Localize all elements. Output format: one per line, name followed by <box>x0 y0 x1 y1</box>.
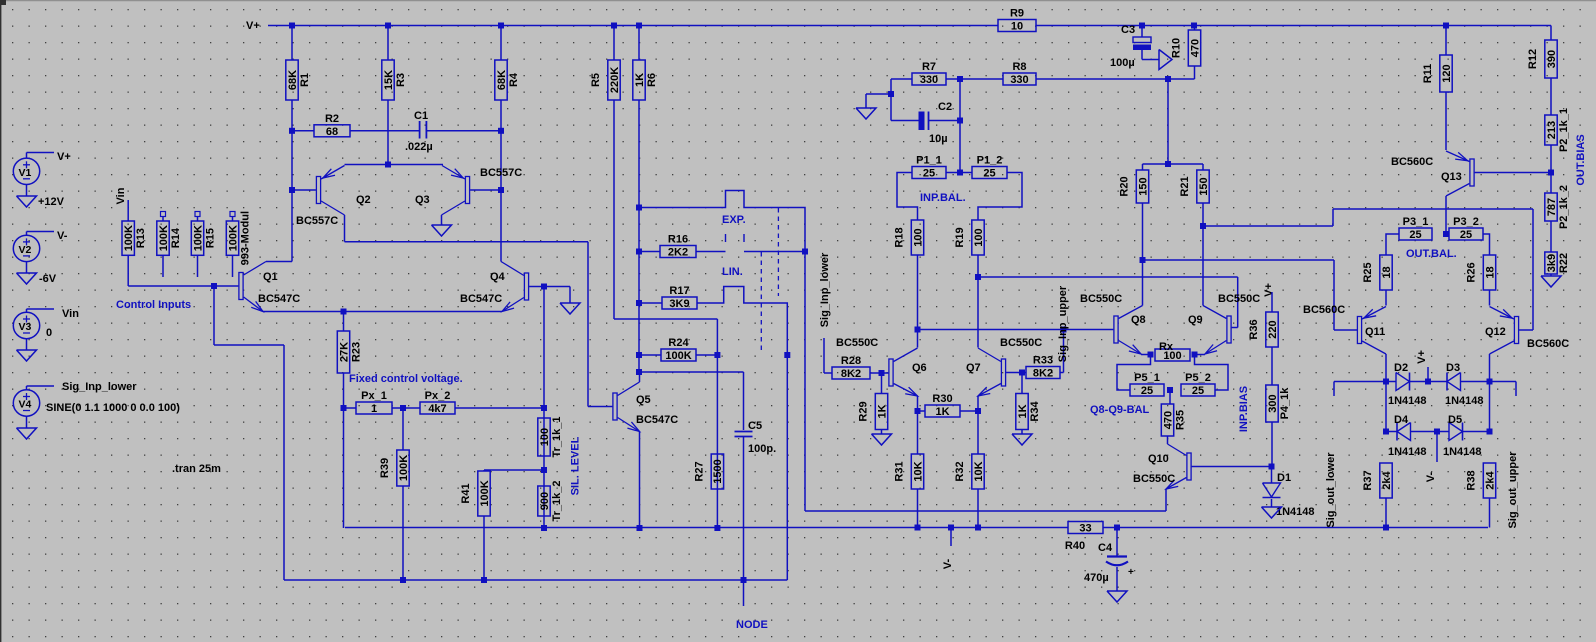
svg-text:P1_1: P1_1 <box>916 155 942 167</box>
svg-text:V-: V- <box>1425 471 1437 482</box>
svg-text:2K2: 2K2 <box>668 247 688 259</box>
svg-text:.022µ: .022µ <box>405 141 433 153</box>
svg-text:10: 10 <box>1011 21 1023 33</box>
svg-text:C5: C5 <box>748 420 762 432</box>
svg-text:1K: 1K <box>634 73 646 87</box>
svg-text:Sig_Inp_lower: Sig_Inp_lower <box>62 381 137 393</box>
svg-text:25: 25 <box>983 168 995 180</box>
svg-text:100K: 100K <box>479 480 491 506</box>
svg-text:Px_2: Px_2 <box>425 390 451 402</box>
svg-text:25: 25 <box>1409 229 1421 241</box>
svg-text:Q8-Q9-BAL: Q8-Q9-BAL <box>1090 404 1150 416</box>
svg-text:100K: 100K <box>227 225 239 251</box>
svg-text:993-Modul: 993-Modul <box>240 211 252 265</box>
svg-text:Q2: Q2 <box>356 194 371 206</box>
svg-text:25: 25 <box>1460 229 1472 241</box>
svg-text:BC560C: BC560C <box>1303 304 1345 316</box>
svg-text:100K: 100K <box>158 225 170 251</box>
svg-text:25: 25 <box>1141 385 1153 397</box>
svg-text:Vin: Vin <box>115 187 127 204</box>
svg-text:100: 100 <box>912 228 924 246</box>
svg-text:-6V: -6V <box>39 273 57 285</box>
svg-text:P5_1: P5_1 <box>1134 372 1160 384</box>
svg-text:R11: R11 <box>1422 64 1434 84</box>
svg-text:Sig_out_upper: Sig_out_upper <box>1507 451 1519 529</box>
svg-text:P4_1k: P4_1k <box>1279 387 1291 420</box>
svg-text:P1_2: P1_2 <box>977 155 1003 167</box>
svg-text:BC557C: BC557C <box>480 167 522 179</box>
svg-text:V-: V- <box>942 558 954 569</box>
svg-text:R24: R24 <box>668 337 689 349</box>
svg-text:OUT.BAL.: OUT.BAL. <box>1406 248 1457 260</box>
svg-text:P5_2: P5_2 <box>1185 372 1211 384</box>
svg-text:BC550C: BC550C <box>1000 337 1042 349</box>
svg-text:R36: R36 <box>1248 319 1260 339</box>
svg-text:V+: V+ <box>57 151 71 163</box>
svg-text:BC550C: BC550C <box>1080 293 1122 305</box>
svg-text:INP.BIAS: INP.BIAS <box>1238 386 1250 432</box>
svg-text:18: 18 <box>1484 266 1496 278</box>
svg-text:1500: 1500 <box>712 459 724 483</box>
svg-text:1K: 1K <box>935 406 949 418</box>
svg-text:100K: 100K <box>398 455 410 481</box>
svg-text:+12V: +12V <box>38 196 65 208</box>
svg-text:18: 18 <box>1381 266 1393 278</box>
svg-text:+: + <box>1128 567 1134 578</box>
svg-text:3K9: 3K9 <box>669 298 689 310</box>
svg-text:R33: R33 <box>1033 355 1053 367</box>
svg-text:Px_1: Px_1 <box>361 390 387 402</box>
svg-text:C3: C3 <box>1121 24 1135 36</box>
svg-text:100: 100 <box>539 428 551 446</box>
svg-text:150: 150 <box>1198 177 1210 195</box>
svg-text:330: 330 <box>920 74 938 86</box>
svg-text:0: 0 <box>46 327 52 339</box>
svg-text:R27: R27 <box>693 461 705 481</box>
svg-text:2k4: 2k4 <box>1484 470 1496 489</box>
svg-text:Q8: Q8 <box>1131 314 1146 326</box>
svg-text:100K: 100K <box>665 350 691 362</box>
svg-text:V4: V4 <box>19 399 32 411</box>
svg-text:100µ: 100µ <box>1110 57 1135 69</box>
svg-text:D4: D4 <box>1394 414 1409 426</box>
svg-text:470µ: 470µ <box>1084 572 1109 584</box>
svg-text:25: 25 <box>1192 385 1204 397</box>
svg-text:R28: R28 <box>841 355 861 367</box>
svg-text:3k9: 3k9 <box>1546 254 1558 272</box>
svg-text:R1: R1 <box>299 73 311 87</box>
svg-text:Sig_Inp_upper: Sig_Inp_upper <box>1057 285 1069 362</box>
svg-text:R22: R22 <box>1558 253 1570 273</box>
svg-text:68K: 68K <box>287 70 299 90</box>
svg-text:150: 150 <box>1137 177 1149 195</box>
svg-text:4k7: 4k7 <box>428 403 446 415</box>
svg-text:Q9: Q9 <box>1188 314 1203 326</box>
svg-text:R8: R8 <box>1012 61 1026 73</box>
svg-text:R17: R17 <box>669 285 689 297</box>
svg-text:P3_1: P3_1 <box>1403 216 1429 228</box>
svg-text:BC547C: BC547C <box>460 293 502 305</box>
svg-text:Control Inputs: Control Inputs <box>116 299 191 311</box>
svg-text:1N4148: 1N4148 <box>1388 446 1427 458</box>
svg-text:EXP.: EXP. <box>722 214 746 226</box>
svg-text:BC547C: BC547C <box>636 414 678 426</box>
svg-text:R25: R25 <box>1362 262 1374 282</box>
svg-text:Q4: Q4 <box>490 271 506 283</box>
svg-text:Q13: Q13 <box>1441 171 1462 183</box>
svg-text:300: 300 <box>1267 394 1279 412</box>
svg-text:8K2: 8K2 <box>1033 368 1053 380</box>
svg-text:V3: V3 <box>19 321 32 333</box>
svg-text:R12: R12 <box>1527 49 1539 69</box>
svg-text:R35: R35 <box>1175 410 1187 430</box>
svg-text:BC550C: BC550C <box>1218 293 1260 305</box>
svg-text:INP.BAL.: INP.BAL. <box>920 192 966 204</box>
svg-text:V2: V2 <box>19 244 32 256</box>
svg-text:R31: R31 <box>894 461 906 481</box>
svg-text:R14: R14 <box>170 227 182 248</box>
svg-text:P3_2: P3_2 <box>1453 216 1479 228</box>
svg-text:Q6: Q6 <box>912 362 927 374</box>
svg-text:V-: V- <box>57 230 68 242</box>
svg-text:Q3: Q3 <box>415 194 430 206</box>
svg-text:.tran 25m: .tran 25m <box>172 463 221 475</box>
svg-text:NODE: NODE <box>736 619 768 631</box>
svg-text:R23: R23 <box>351 342 363 362</box>
svg-text:R37: R37 <box>1362 470 1374 490</box>
svg-text:V+: V+ <box>1416 350 1428 364</box>
svg-text:V+: V+ <box>246 20 260 32</box>
svg-text:R18: R18 <box>894 227 906 247</box>
svg-text:2k4: 2k4 <box>1381 470 1393 489</box>
svg-text:R30: R30 <box>932 393 952 405</box>
svg-text:D3: D3 <box>1446 362 1460 374</box>
svg-text:R16: R16 <box>668 234 688 246</box>
svg-text:SINE(0 1.1 1000 0 0.0 100): SINE(0 1.1 1000 0 0.0 100) <box>46 402 180 414</box>
svg-text:213: 213 <box>1546 121 1558 139</box>
svg-text:R13: R13 <box>135 228 147 248</box>
svg-text:330: 330 <box>1010 74 1028 86</box>
svg-text:Tr_1k_1: Tr_1k_1 <box>551 417 563 458</box>
svg-text:Q5: Q5 <box>636 394 651 406</box>
svg-text:R15: R15 <box>205 228 217 248</box>
svg-text:Vin: Vin <box>62 308 79 320</box>
svg-text:390: 390 <box>1546 50 1558 68</box>
svg-text:1N4148: 1N4148 <box>1443 446 1482 458</box>
svg-text:R3: R3 <box>395 73 407 87</box>
svg-text:Q11: Q11 <box>1365 326 1385 338</box>
svg-text:33: 33 <box>1079 523 1091 535</box>
svg-text:R5: R5 <box>590 73 602 87</box>
svg-text:100: 100 <box>973 228 985 246</box>
svg-text:100K: 100K <box>192 225 204 251</box>
svg-text:C2: C2 <box>938 101 952 113</box>
svg-text:R19: R19 <box>954 227 966 247</box>
svg-text:R34: R34 <box>1029 401 1041 422</box>
svg-text:R20: R20 <box>1119 176 1131 196</box>
svg-text:Q1: Q1 <box>263 271 278 283</box>
svg-text:Q7: Q7 <box>966 362 981 374</box>
svg-text:68: 68 <box>326 126 338 138</box>
svg-text:C1: C1 <box>414 110 428 122</box>
svg-text:Fixed control voltage.: Fixed control voltage. <box>349 373 463 385</box>
svg-text:220K: 220K <box>609 67 621 93</box>
svg-text:P2_1k_1: P2_1k_1 <box>1558 108 1570 152</box>
svg-text:R41: R41 <box>460 483 472 503</box>
svg-text:Tr_1k_2: Tr_1k_2 <box>551 481 563 522</box>
svg-text:Q10: Q10 <box>1148 453 1169 465</box>
svg-text:P2_1k_2: P2_1k_2 <box>1558 185 1570 229</box>
svg-text:68K: 68K <box>496 70 508 90</box>
svg-text:15K: 15K <box>383 70 395 90</box>
svg-text:470: 470 <box>1162 411 1174 429</box>
svg-text:D1: D1 <box>1277 472 1291 484</box>
svg-text:10K: 10K <box>912 461 924 481</box>
svg-text:R40: R40 <box>1065 540 1085 552</box>
svg-text:R2: R2 <box>325 113 339 125</box>
svg-text:BC550C: BC550C <box>836 337 878 349</box>
svg-text:V+: V+ <box>1263 283 1275 297</box>
svg-text:900: 900 <box>539 492 551 510</box>
svg-text:1K: 1K <box>1017 404 1029 418</box>
svg-text:Sig_out_lower: Sig_out_lower <box>1325 452 1337 528</box>
svg-text:R4: R4 <box>508 72 520 87</box>
svg-text:R29: R29 <box>858 401 870 421</box>
svg-text:787: 787 <box>1546 198 1558 216</box>
svg-text:R38: R38 <box>1466 470 1478 490</box>
svg-text:Q12: Q12 <box>1485 326 1506 338</box>
svg-text:D5: D5 <box>1448 414 1462 426</box>
svg-text:SIL. LEVEL: SIL. LEVEL <box>570 436 582 495</box>
svg-text:R7: R7 <box>922 61 936 73</box>
svg-text:R21: R21 <box>1179 176 1191 196</box>
svg-text:Sig_Inp_lower: Sig_Inp_lower <box>819 252 831 327</box>
svg-text:BC557C: BC557C <box>296 215 338 227</box>
svg-text:1N4148: 1N4148 <box>1388 395 1427 407</box>
svg-text:120: 120 <box>1441 64 1453 82</box>
svg-text:D2: D2 <box>1394 362 1408 374</box>
svg-text:8K2: 8K2 <box>841 368 861 380</box>
svg-text:470: 470 <box>1189 39 1201 57</box>
svg-text:V1: V1 <box>19 167 32 179</box>
svg-text:1K: 1K <box>876 404 888 418</box>
svg-text:10K: 10K <box>973 461 985 481</box>
svg-text:C4: C4 <box>1098 542 1113 554</box>
svg-text:BC550C: BC550C <box>1133 473 1175 485</box>
svg-text:BC560C: BC560C <box>1391 156 1433 168</box>
svg-text:R26: R26 <box>1466 262 1478 282</box>
svg-text:BC547C: BC547C <box>258 293 300 305</box>
svg-text:R39: R39 <box>379 458 391 478</box>
svg-text:R9: R9 <box>1010 8 1024 20</box>
svg-text:220: 220 <box>1267 320 1279 338</box>
svg-text:R6: R6 <box>646 73 658 87</box>
svg-text:LIN.: LIN. <box>722 266 743 278</box>
svg-text:1N4148: 1N4148 <box>1445 395 1484 407</box>
svg-text:Rx: Rx <box>1159 341 1174 353</box>
svg-text:10µ: 10µ <box>929 133 948 145</box>
svg-text:R10: R10 <box>1171 38 1183 58</box>
svg-text:100K: 100K <box>123 225 135 251</box>
svg-text:100p.: 100p. <box>748 443 776 455</box>
svg-text:27K: 27K <box>338 342 350 362</box>
svg-text:R32: R32 <box>954 461 966 481</box>
svg-text:OUT.BIAS: OUT.BIAS <box>1575 134 1587 185</box>
svg-text:1: 1 <box>371 403 377 415</box>
svg-text:25: 25 <box>923 168 935 180</box>
svg-text:BC560C: BC560C <box>1527 338 1569 350</box>
